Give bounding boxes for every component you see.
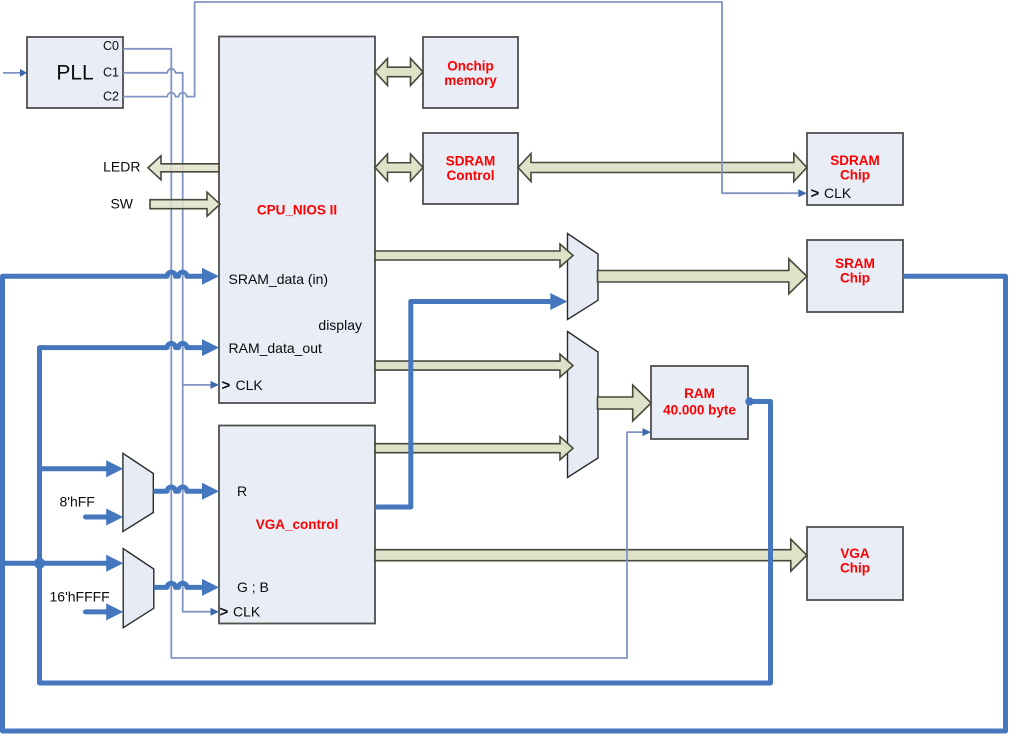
svg-text:8'hFF: 8'hFF (60, 494, 95, 510)
olive arrow mux M1 to SRAM Chip (598, 259, 807, 294)
svg-text:VGA_control: VGA_control (256, 517, 339, 532)
svg-text:CPU_NIOS II: CPU_NIOS II (257, 202, 337, 217)
block SDRAM Chip (807, 133, 903, 205)
block CPU_NIOS II (219, 37, 375, 404)
thick wire VGA_control to mux M1 (375, 302, 551, 508)
thin wire C0 (PLL to RAM clock) (123, 49, 643, 658)
svg-text:SW: SW (110, 196, 133, 212)
svg-text:memory: memory (444, 73, 497, 88)
thick wire RAM data loop (RAM to CPU RAM_data_out) (40, 343, 771, 683)
svg-text:Chip: Chip (840, 270, 870, 285)
block Onchip memory (423, 37, 518, 108)
olive double arrow CPU-SDRAM Control (375, 154, 423, 181)
block RAM 40.000 byte (651, 366, 748, 439)
thin wire C2 (PLL to SDRAM Chip CLK) (123, 2, 798, 193)
block VGA_control (219, 426, 375, 624)
thick wire branch RAM loop to mux M3 (40, 466, 108, 471)
svg-text:SRAM: SRAM (835, 256, 875, 271)
mux M2 (to RAM) (568, 332, 599, 478)
svg-text:R: R (237, 483, 247, 499)
svg-text:display: display (318, 317, 362, 333)
mux M4 (G;B input) (123, 549, 154, 628)
svg-text:Onchip: Onchip (447, 58, 494, 73)
olive arrow LEDR (left) (148, 156, 219, 180)
svg-text:RAM: RAM (684, 386, 715, 401)
mux M1 (to SRAM chip) (568, 234, 599, 320)
olive arrow mux M2 to RAM (598, 385, 652, 421)
svg-text:CLK: CLK (233, 604, 261, 620)
block PLL (27, 37, 123, 108)
thick wire branch SRAM loop to mux M4 (3, 561, 108, 566)
svg-text:16'hFFFF: 16'hFFFF (50, 589, 110, 605)
olive arrow SW (right) (150, 192, 220, 216)
svg-text:Control: Control (447, 168, 495, 183)
svg-text:40.000 byte: 40.000 byte (663, 402, 736, 417)
svg-text:CLK: CLK (824, 185, 852, 201)
svg-text:PLL: PLL (56, 62, 93, 85)
block SRAM Chip (807, 240, 903, 312)
thick wire 8'hFF stub (86, 515, 108, 520)
svg-text:G ; B: G ; B (237, 579, 269, 595)
block VGA Chip (807, 527, 903, 600)
svg-text:LEDR: LEDR (103, 159, 140, 175)
thick wire SRAM data loop (SRAM Chip to CPU SRAM_data in) (3, 272, 1006, 731)
thin wire C1 (PLL to CPU CLK and VGA CLK) (123, 69, 211, 612)
svg-text:>: > (811, 185, 820, 202)
svg-text:RAM_data_out: RAM_data_out (229, 340, 323, 356)
olive double arrow SDRAM Control-SDRAM Chip (518, 154, 807, 182)
thick wire mux M3 to R (153, 487, 202, 491)
svg-text:SDRAM: SDRAM (446, 154, 496, 169)
olive arrow VGA_control to VGA Chip (375, 539, 807, 571)
block SDRAM Control (423, 133, 518, 204)
svg-text:>: > (222, 377, 231, 394)
junction dot at RAM output (745, 397, 753, 405)
thick wire 16'hFFFF stub (86, 609, 108, 614)
svg-text:C1: C1 (103, 65, 119, 79)
olive arrow VGA_control to mux M2 (375, 437, 573, 460)
mux M3 (R input) (123, 453, 153, 531)
svg-text:C2: C2 (103, 90, 119, 104)
junction dot at RAM loop crossing (34, 558, 45, 569)
olive double arrow CPU-Onchip memory (375, 58, 423, 85)
thin wire PLL input (3, 72, 21, 74)
svg-text:SRAM_data (in): SRAM_data (in) (229, 271, 329, 287)
svg-text:>: > (220, 604, 229, 621)
svg-text:VGA: VGA (840, 546, 870, 561)
olive arrow CPU to mux M1 (375, 244, 573, 267)
svg-text:Chip: Chip (840, 167, 870, 182)
svg-text:Chip: Chip (840, 561, 870, 576)
thick wire mux M4 to G;B (154, 583, 202, 587)
olive arrow CPU to mux M2 (375, 354, 573, 377)
svg-text:C0: C0 (103, 39, 119, 53)
svg-text:SDRAM: SDRAM (830, 153, 880, 168)
svg-text:CLK: CLK (236, 377, 264, 393)
thin wire C1 branch to CPU CLK (183, 384, 211, 386)
